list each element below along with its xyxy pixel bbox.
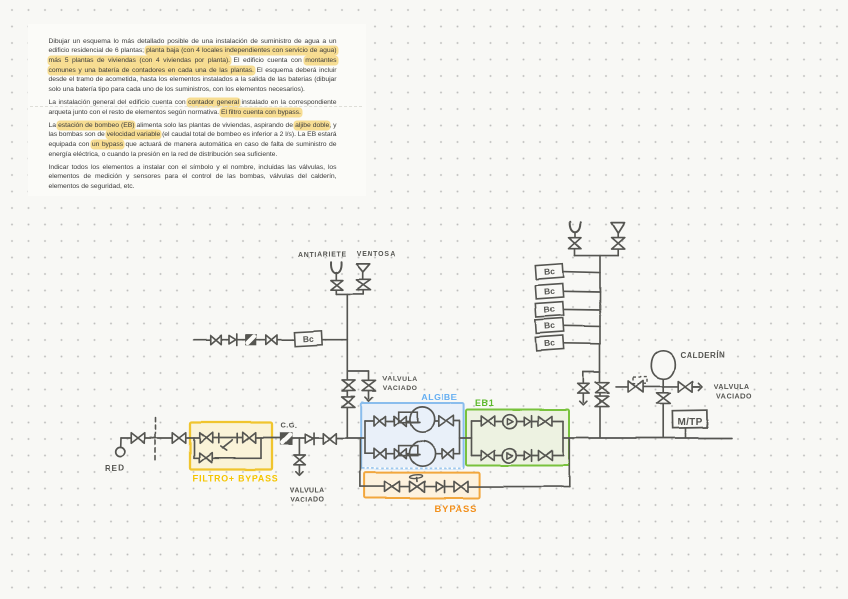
svg-text:VACIADO: VACIADO [290,497,325,504]
svg-text:VALVULA: VALVULA [290,487,325,494]
svg-text:ANTIARIETE: ANTIARIETE [298,251,347,258]
svg-text:Bc: Bc [303,333,315,344]
svg-text:BYPASS: BYPASS [434,503,477,514]
svg-text:FILTRO+ BYPASS: FILTRO+ BYPASS [193,474,278,484]
svg-text:C.G.: C.G. [281,421,298,430]
svg-text:VENTOSA: VENTOSA [357,251,397,258]
svg-text:CALDERÍN: CALDERÍN [680,351,725,360]
svg-text:RED: RED [105,463,126,472]
svg-text:VACIADO: VACIADO [383,385,418,392]
svg-text:Bc: Bc [544,286,556,297]
svg-text:ALGIBE: ALGIBE [421,392,457,402]
svg-text:VALVULA: VALVULA [383,376,418,383]
svg-text:Bc: Bc [544,338,556,349]
svg-text:M/TP: M/TP [677,417,702,428]
svg-text:VALVULA: VALVULA [714,384,749,391]
svg-text:VACIADO: VACIADO [717,393,752,400]
svg-text:Bc: Bc [544,304,556,315]
svg-text:EB1: EB1 [475,398,494,408]
svg-text:Bc: Bc [544,320,556,331]
svg-text:Bc: Bc [544,266,556,277]
